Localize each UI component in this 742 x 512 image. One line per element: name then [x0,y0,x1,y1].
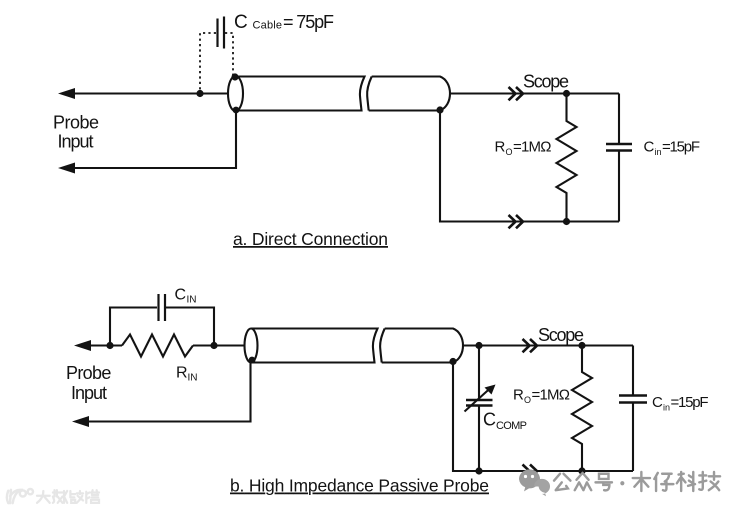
svg-text:b. High Impedance Passive Prob: b. High Impedance Passive Probe [230,476,489,496]
svg-text:C: C [175,287,187,304]
label RO=1MOhm a [495,139,552,158]
svg-text:Probe: Probe [53,113,99,133]
svg-text:a. Direct Connection: a. Direct Connection [233,229,388,249]
wire bottom rail b [453,362,633,472]
label Cin=15pF a [644,139,701,158]
glyph kua [70,491,83,503]
resistor RIN [122,335,193,357]
capacitor Cin a [606,94,632,222]
value label C_Cable = 75pF [234,12,334,33]
svg-text:=15pF: =15pF [662,139,700,156]
svg-text:IN: IN [188,373,198,384]
coax cable a [228,76,450,111]
wire probe input b arrow [86,344,122,346]
label Cin=15pF b [652,394,709,413]
svg-text:=1MΩ: =1MΩ [513,139,552,156]
node ccomp top [475,342,482,349]
svg-text:COMP: COMP [496,420,527,432]
capacitor C_cable plates (dotted leads) [218,17,225,49]
svg-text:R: R [495,139,506,156]
svg-text:Scope: Scope [523,72,569,92]
svg-text:R: R [176,365,188,382]
svg-text:Input: Input [58,132,94,152]
node scope b [578,342,585,349]
node resistor b bottom [578,467,585,474]
glyph ji [699,472,720,490]
node cable b left bottom [249,357,256,364]
chevron connector b top [523,339,538,352]
wire resistor to cable b [193,344,245,346]
middle dot [620,481,624,485]
svg-text:Cable: Cable [253,20,283,32]
svg-text:C: C [234,12,248,33]
coax cable b [245,329,464,363]
glyph zi [654,473,673,491]
svg-text:Probe: Probe [66,363,111,383]
node junction on probe wire [196,90,203,97]
wire probe return b [84,362,251,422]
node ccomp bottom [475,467,482,474]
chevron connector a bottom [509,215,524,228]
wire dotted leads of C_cable [200,33,233,92]
chevron connector a top [509,87,524,100]
node scope a [563,90,570,97]
svg-text:C: C [483,410,496,430]
glyph mu [633,472,650,491]
glyph zhong [575,473,591,490]
resistor RO a [557,94,577,222]
svg-text:=15pF: =15pF [671,394,709,411]
svg-text:=1MΩ: =1MΩ [532,387,571,404]
svg-text:C: C [652,394,663,411]
svg-text:in: in [663,403,670,413]
variable capacitor CCOMP [465,346,493,472]
node cable b right bottom [449,358,456,365]
label CIN [175,287,197,306]
glyph shu [53,490,67,503]
wire bottom rail a [440,110,619,222]
glyph jing [86,490,99,503]
node at cable a left bottom [233,107,240,114]
label CCOMP [483,410,527,433]
label RO=1MOhm b [513,387,570,406]
node bottom rail a [563,218,570,225]
svg-text:O: O [524,395,531,405]
glyph gong [554,474,570,490]
watermark logo 100 bottom-left [7,489,33,503]
svg-text:R: R [513,387,524,404]
wire cable a to scope [450,92,619,94]
node right of resistor RIN [210,342,217,349]
wire cable b to scope [463,344,633,346]
svg-text:Input: Input [71,383,107,403]
wire probe return a [70,110,236,168]
capacitor Cin b [619,346,647,472]
capacitor CIN parallel branch [110,294,214,346]
glyph da [37,491,50,503]
label RIN [176,365,198,384]
svg-text:Scope: Scope [538,325,584,345]
svg-text:in: in [655,147,662,157]
glyph hao [596,474,612,491]
svg-text:O: O [506,147,513,157]
node at cable a top [231,73,238,80]
watermark text gongzhonghao muzai keji (drawn strokes) [554,472,720,491]
node at cable a right bottom [436,106,443,113]
glyph ke [677,472,695,491]
watermark wechat icon [519,469,550,496]
svg-text:= 75pF: = 75pF [283,12,334,32]
svg-text:IN: IN [187,295,197,306]
wire probe input top arrow [70,92,228,94]
node left of resistor RIN [106,342,113,349]
watermark text dashukuajing [37,490,99,503]
resistor RO b [572,346,592,472]
chevron connector b bottom [523,465,538,478]
svg-text:C: C [644,139,655,156]
